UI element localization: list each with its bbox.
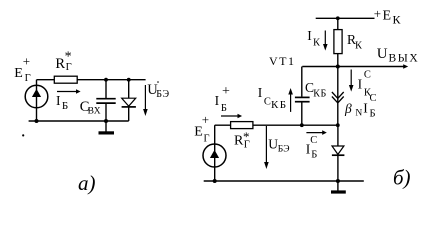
current source E_G arrow (up) bbox=[32, 89, 41, 97]
label I_B+ of circuit b bbox=[215, 84, 230, 114]
svg-text:ВХ: ВХ bbox=[88, 107, 101, 117]
dependent current source double arrow bbox=[332, 92, 344, 103]
current arrow I_C_KB (up) bbox=[288, 88, 293, 112]
node: junction dot ground of circuit a bbox=[104, 119, 108, 123]
label E_G+ of circuit b bbox=[194, 112, 209, 144]
wire: collector branch through R_K bbox=[337, 18, 339, 66]
current arrow I_B+ of circuit b bbox=[221, 114, 242, 119]
svg-text:+: + bbox=[202, 112, 209, 127]
voltage arrow U_BE of circuit b bbox=[264, 126, 269, 169]
svg-text:I: I bbox=[307, 28, 312, 43]
wire: +E_K top rail bbox=[316, 17, 375, 19]
svg-text:N: N bbox=[355, 108, 362, 118]
label E_G + bbox=[14, 54, 30, 85]
wire: top rail of circuit a bbox=[37, 79, 146, 81]
svg-text:Г: Г bbox=[25, 73, 31, 84]
svg-text:Б: Б bbox=[370, 109, 376, 120]
node: junction dot base/C_KB bbox=[300, 123, 304, 127]
diode of circuit b bbox=[332, 125, 345, 181]
label beta_N I_B^C bbox=[344, 93, 377, 120]
label I_K^C bbox=[358, 69, 372, 98]
label R_G* of circuit a bbox=[55, 50, 71, 74]
svg-text:E: E bbox=[383, 8, 392, 23]
label C_KB bbox=[305, 80, 327, 99]
svg-text:К: К bbox=[393, 12, 402, 26]
wire: vertical branch through current source E_G of circuit b bbox=[214, 125, 216, 181]
label +E_K bbox=[374, 6, 402, 26]
svg-text:I: I bbox=[363, 101, 368, 116]
svg-text:Г: Г bbox=[66, 62, 72, 73]
capacitor C_KB branch bbox=[295, 67, 310, 126]
svg-text:а): а) bbox=[78, 171, 96, 195]
label I_K bbox=[307, 28, 321, 48]
wire: bottom rail of circuit a bbox=[29, 120, 129, 122]
svg-text:ВЫХ: ВЫХ bbox=[389, 53, 420, 65]
wire: dependent source branch collector to base bbox=[337, 67, 339, 126]
svg-text:I: I bbox=[258, 85, 263, 100]
svg-text:Б: Б bbox=[62, 100, 68, 112]
svg-text:C: C bbox=[370, 93, 377, 104]
current source arrow (up) of circuit b bbox=[210, 150, 219, 158]
svg-text:+: + bbox=[374, 6, 381, 21]
svg-text:К: К bbox=[355, 40, 363, 51]
current source E_G circle of circuit b bbox=[203, 144, 226, 167]
svg-text:U: U bbox=[268, 137, 278, 152]
current arrow I_K bbox=[323, 31, 328, 51]
svg-text:+: + bbox=[23, 54, 30, 69]
svg-text:C: C bbox=[310, 135, 317, 146]
svg-text:К: К bbox=[313, 38, 321, 49]
svg-text:Г: Г bbox=[244, 140, 250, 151]
label R_G* of circuit b bbox=[234, 129, 250, 151]
label I_C_KB bbox=[258, 85, 288, 111]
svg-text:VT1: VT1 bbox=[269, 54, 296, 68]
node: junction dot source bottom bbox=[35, 119, 39, 123]
label U_BE of circuit b bbox=[268, 137, 289, 155]
svg-text:I: I bbox=[56, 93, 61, 108]
svg-text:БЭ: БЭ bbox=[278, 145, 290, 155]
svg-text:Б: Б bbox=[221, 103, 227, 114]
wire: vertical branch through current source E_G bbox=[36, 80, 38, 121]
svg-text:β: β bbox=[344, 101, 352, 116]
diode of circuit a bbox=[122, 80, 136, 121]
current arrow I_B of circuit a bbox=[57, 89, 81, 94]
svg-text:+: + bbox=[222, 84, 230, 99]
current source E_G (circle) bbox=[25, 85, 48, 108]
svg-text:Г: Г bbox=[204, 133, 210, 144]
node: junction dot top of diode VD bbox=[127, 78, 131, 82]
label I_B of circuit a bbox=[56, 93, 68, 112]
label I_B^C bbox=[306, 135, 318, 161]
svg-text:U: U bbox=[377, 46, 388, 62]
capacitor C_VX bbox=[96, 80, 115, 121]
node: junction dot on +E_K rail bbox=[336, 16, 340, 20]
svg-text:E: E bbox=[14, 66, 23, 81]
label C_VX bbox=[80, 99, 101, 117]
stray dot mark bbox=[22, 134, 24, 136]
wire: emitter/ground rail of circuit b bbox=[204, 180, 364, 182]
label U_BE of circuit a bbox=[147, 81, 169, 100]
svg-text:I: I bbox=[215, 93, 220, 108]
label R_K bbox=[347, 32, 363, 51]
wire: collector node rail with output arrow U_VYH bbox=[302, 64, 408, 69]
resistor R_K bbox=[334, 30, 342, 54]
label U_VYH bbox=[377, 46, 420, 65]
node: junction dot top of C_VX bbox=[104, 78, 108, 82]
node: junction dot ground of circuit b bbox=[336, 179, 340, 183]
svg-text:C: C bbox=[264, 97, 271, 108]
wire: base rail of circuit b bbox=[215, 124, 338, 126]
current arrow I_K^C bbox=[349, 70, 354, 92]
node: junction dot source bottom of circuit b bbox=[213, 179, 217, 183]
voltage arrow U_BE of circuit a bbox=[143, 85, 148, 116]
svg-text:КБ: КБ bbox=[313, 88, 327, 99]
svg-text:I: I bbox=[358, 77, 363, 92]
resistor R_G* of circuit b bbox=[231, 122, 253, 129]
ground of circuit a bbox=[99, 121, 115, 133]
svg-text:КБ: КБ bbox=[271, 99, 287, 111]
svg-text:б): б) bbox=[393, 166, 411, 190]
svg-text:Б: Б bbox=[311, 150, 317, 161]
node: junction dot collector bbox=[336, 65, 340, 69]
resistor R_G* of circuit a bbox=[54, 76, 77, 83]
current arrow I_B^C bbox=[306, 130, 326, 135]
ground of circuit b bbox=[331, 181, 346, 192]
node: junction dot base/collector branch bbox=[336, 123, 340, 127]
svg-text:БЭ: БЭ bbox=[156, 89, 170, 100]
svg-text:C: C bbox=[364, 69, 371, 80]
